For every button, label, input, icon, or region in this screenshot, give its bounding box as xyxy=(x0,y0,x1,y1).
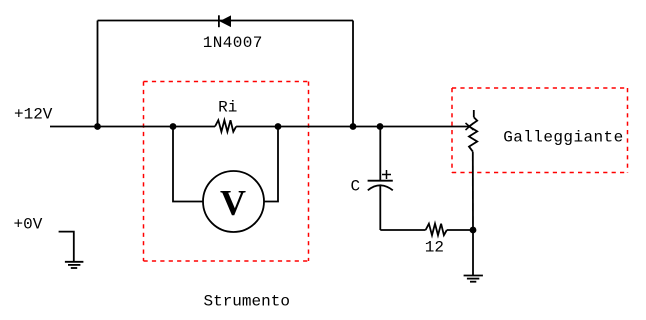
wire top horizontal xyxy=(98,20,354,22)
wire resistor 12 to node F xyxy=(447,229,473,231)
wire node F to ground xyxy=(472,230,474,275)
wire voltmeter left branch xyxy=(173,127,203,202)
svg-text:+12V: +12V xyxy=(14,106,53,124)
dashed box Strumento xyxy=(144,82,309,262)
node C junction xyxy=(275,123,282,130)
svg-text:Ri: Ri xyxy=(218,99,237,117)
resistor Ri xyxy=(215,120,236,132)
wiper arrow xyxy=(466,123,474,130)
capacitor C plus sign xyxy=(382,174,391,176)
wire +12V to node A xyxy=(50,126,98,128)
node A junction xyxy=(94,123,101,130)
wire rheostat bottom to node F xyxy=(472,152,474,230)
svg-text:12: 12 xyxy=(425,238,444,256)
wire top right down xyxy=(352,21,354,127)
ground right xyxy=(464,275,483,277)
svg-text:+0V: +0V xyxy=(14,216,43,234)
ground left xyxy=(65,261,84,263)
wire voltmeter right branch xyxy=(264,127,278,202)
wire resistor Ri to node C xyxy=(236,126,278,128)
rheostat R2 body xyxy=(469,117,477,151)
wire node A up xyxy=(97,21,99,127)
wire node B to resistor Ri xyxy=(173,126,215,128)
node E junction xyxy=(377,123,384,130)
rheostat top stub xyxy=(473,110,475,117)
svg-text:V: V xyxy=(220,183,246,223)
node B junction xyxy=(170,123,177,130)
wire node A to node B xyxy=(98,126,174,128)
node F junction xyxy=(470,227,477,234)
svg-text:1N4007: 1N4007 xyxy=(203,34,262,52)
voltmeter V1 circle xyxy=(203,171,264,232)
wire capacitor to resistor 12 xyxy=(380,229,425,231)
wire node E down to capacitor xyxy=(379,127,381,181)
resistor 12 xyxy=(426,224,447,236)
wire node D to node E xyxy=(353,126,380,128)
diode D1 1N4007 cathode bar xyxy=(218,15,220,27)
wire capacitor down xyxy=(379,186,381,230)
svg-text:Strumento: Strumento xyxy=(204,293,290,311)
diode D1 triangle xyxy=(220,15,232,27)
wire +0V to ground xyxy=(59,232,74,262)
svg-text:C: C xyxy=(351,178,361,196)
capacitor C bottom plate xyxy=(368,185,393,190)
capacitor C top plate xyxy=(368,180,393,182)
node D junction xyxy=(350,123,357,130)
wire node E to wiper arrow xyxy=(380,126,470,128)
dashed box Galleggiante xyxy=(452,88,628,173)
svg-text:Galleggiante: Galleggiante xyxy=(503,129,623,147)
wire node C to node D xyxy=(278,126,353,128)
